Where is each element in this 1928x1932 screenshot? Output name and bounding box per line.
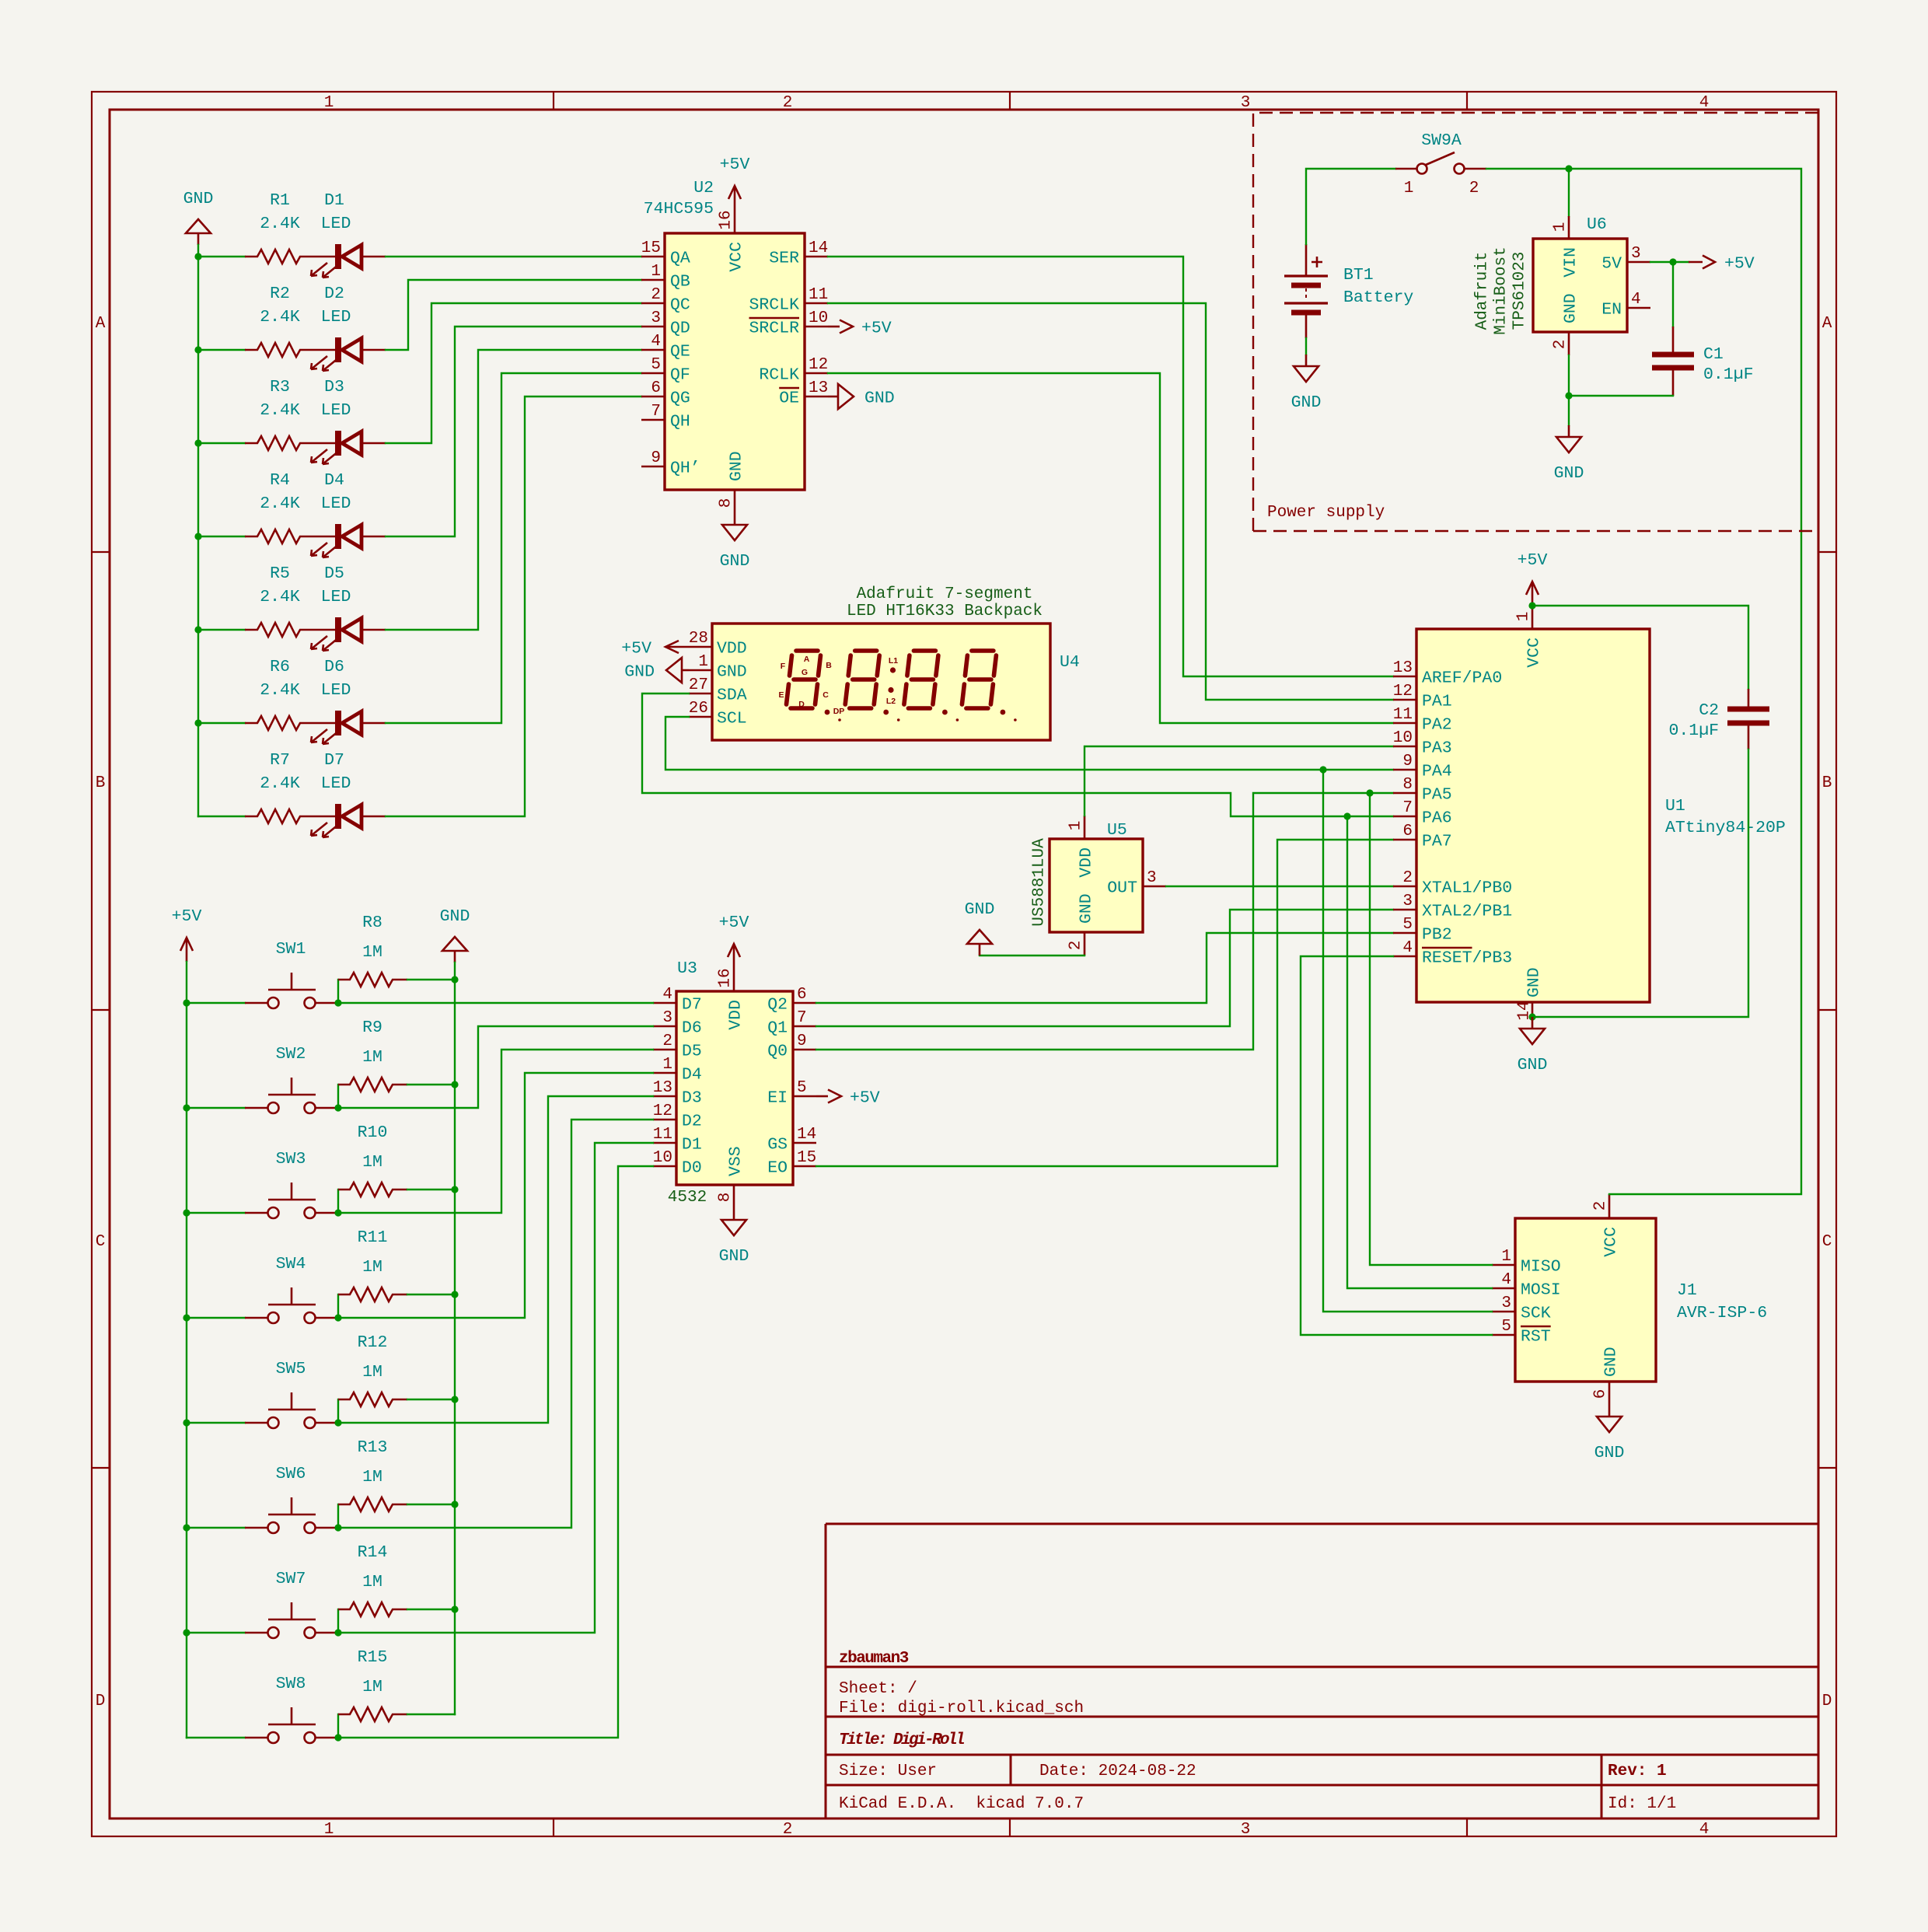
svg-text:Q1: Q1: [767, 1019, 788, 1038]
wire U5 GND to ground: [980, 955, 1084, 956]
svg-text:1: 1: [324, 1821, 334, 1839]
IC U3 4532 priority encoder: [653, 959, 816, 1208]
svg-text:Size: User: Size: User: [839, 1763, 937, 1780]
svg-text:1: 1: [1501, 1248, 1511, 1266]
svg-text:3: 3: [1501, 1294, 1511, 1312]
svg-text:+5V: +5V: [720, 155, 750, 174]
power supply dashed group box: [1253, 113, 1818, 531]
svg-text:E: E: [778, 690, 784, 700]
svg-text:PA6: PA6: [1422, 809, 1452, 828]
svg-text:2.4K: 2.4K: [260, 681, 300, 700]
junction node SW8/R15: [334, 1734, 341, 1741]
wire +5V to SW1: [187, 1002, 245, 1004]
junction node LED row 3: [194, 439, 201, 446]
pushbutton SW5: [245, 1360, 338, 1428]
svg-text:R11: R11: [358, 1228, 388, 1247]
svg-text:10: 10: [653, 1149, 672, 1167]
wire SW8 to U3 D0: [338, 1166, 653, 1738]
7-segment digit 3: [904, 651, 959, 721]
wire R14 to GND rail: [407, 1609, 455, 1610]
svg-text:74HC595: 74HC595: [644, 200, 714, 218]
resistor R13 1M: [338, 1438, 407, 1511]
wire +5V to SW5: [187, 1422, 245, 1424]
svg-text:R3: R3: [270, 378, 290, 397]
svg-text:5: 5: [1501, 1318, 1511, 1336]
wire D4 to U2: [386, 327, 641, 536]
svg-text:1M: 1M: [362, 1153, 382, 1172]
svg-text:BT1: BT1: [1343, 266, 1374, 285]
svg-text:R14: R14: [358, 1543, 388, 1562]
svg-text:4: 4: [651, 333, 661, 351]
svg-text:14: 14: [809, 239, 828, 257]
svg-text:1M: 1M: [362, 1468, 382, 1487]
svg-text:D: D: [96, 1693, 106, 1710]
svg-text:+5V: +5V: [1724, 255, 1755, 274]
svg-text:6: 6: [651, 379, 661, 397]
junction node +5V rail SW3: [183, 1209, 190, 1216]
svg-text:13: 13: [809, 379, 828, 397]
svg-text:U1: U1: [1665, 797, 1685, 816]
wire J1 MOSI to U1 PA6: [1347, 816, 1492, 1288]
svg-text:Sheet: /: Sheet: /: [839, 1680, 917, 1698]
IC U2 74HC595 shift register: [641, 179, 828, 513]
svg-text:SCL: SCL: [717, 710, 747, 728]
IC U1 ATtiny84-20P microcontroller: [1393, 606, 1786, 1021]
svg-text:VCC: VCC: [1602, 1227, 1621, 1257]
svg-text:R6: R6: [270, 658, 290, 676]
svg-text:R5: R5: [270, 564, 290, 583]
svg-text:GS: GS: [767, 1136, 788, 1155]
svg-text:11: 11: [653, 1126, 672, 1144]
resistor R3 2.4K: [245, 378, 315, 450]
svg-text:1: 1: [1067, 821, 1085, 831]
IC U4 Adafruit 7-segment LED HT16K33 Backpack: [689, 585, 1080, 740]
+5V power symbol (switch column): [172, 907, 202, 962]
resistor R8 1M: [338, 914, 407, 987]
resistor R15 1M: [338, 1648, 407, 1721]
svg-text:8: 8: [718, 498, 735, 508]
wire U3 EO to U1 PA7: [816, 840, 1393, 1166]
svg-text:11: 11: [809, 286, 828, 304]
wire U4 SCL to U1 PA4: [665, 717, 1393, 770]
svg-text:PB2: PB2: [1422, 926, 1452, 945]
junction node GND rail R12: [451, 1396, 458, 1403]
svg-text:U4: U4: [1060, 653, 1080, 672]
wire GND rail for switch resistors: [454, 963, 456, 1714]
wire GND to R7: [198, 816, 245, 817]
wire SW6 to U3 D2: [338, 1120, 653, 1528]
junction node U1 GND: [1528, 1013, 1535, 1020]
wire U6 GND to C1: [1568, 355, 1570, 396]
junction node 5V/C1: [1669, 258, 1676, 265]
svg-text:2: 2: [1469, 180, 1479, 197]
wire +5V to SW3: [187, 1212, 245, 1214]
svg-text:GND: GND: [719, 1247, 749, 1266]
junction node GND rail R11: [451, 1291, 458, 1298]
junction node GND rail R9: [451, 1081, 458, 1088]
svg-text:1: 1: [662, 1056, 672, 1074]
wire SW2 to R9: [337, 1085, 339, 1108]
svg-text:2: 2: [783, 94, 793, 112]
svg-text:+5V: +5V: [621, 640, 651, 659]
capacitor C1 0.1uF: [1652, 262, 1754, 396]
svg-text:U2: U2: [693, 179, 714, 197]
junction node LED row 1: [194, 253, 201, 260]
svg-text:Power supply: Power supply: [1267, 504, 1385, 522]
svg-text:16: 16: [717, 968, 735, 987]
switch SW9A: [1395, 131, 1486, 197]
svg-text:C: C: [1822, 1233, 1832, 1251]
svg-text:2: 2: [662, 1032, 672, 1050]
resistor R11 1M: [338, 1228, 407, 1301]
svg-text:12: 12: [1393, 683, 1413, 700]
wire +5V to SW8: [187, 1737, 245, 1738]
svg-text:LED HT16K33 Backpack: LED HT16K33 Backpack: [847, 603, 1043, 620]
pushbutton SW8: [245, 1675, 338, 1743]
wire D1 to U2 QA: [386, 256, 641, 257]
svg-text:EO: EO: [767, 1159, 788, 1178]
wire SW8 to R15: [337, 1714, 339, 1738]
wire R13 to GND rail: [407, 1504, 455, 1505]
wire J1 SCK to U1 PA4: [1323, 770, 1492, 1312]
svg-text:Adafruit 7-segment: Adafruit 7-segment: [857, 585, 1033, 603]
svg-text:XTAL1/PB0: XTAL1/PB0: [1422, 879, 1512, 898]
svg-text:U3: U3: [677, 959, 697, 978]
wire battery + to SW9A: [1306, 169, 1395, 244]
LED D4: [311, 471, 386, 557]
svg-text:8: 8: [1402, 776, 1413, 794]
svg-text:2.4K: 2.4K: [260, 494, 300, 513]
svg-text:SRCLR: SRCLR: [749, 320, 799, 338]
wire R11 to GND rail: [407, 1294, 455, 1295]
junction node SCL/SCK: [1319, 766, 1326, 773]
svg-text:J1: J1: [1677, 1281, 1697, 1300]
wire D2 to U2: [386, 280, 641, 350]
svg-text:VDD: VDD: [727, 1000, 746, 1030]
svg-text:SW4: SW4: [276, 1255, 306, 1273]
junction node Q0/MISO: [1366, 789, 1373, 796]
ground power symbol at U3 VSS: [719, 1208, 749, 1266]
svg-text:QC: QC: [670, 296, 690, 315]
resistor R12 1M: [338, 1333, 407, 1406]
junction node +5V rail SW7: [183, 1629, 190, 1636]
svg-text:4: 4: [1699, 1821, 1710, 1839]
svg-text:D4: D4: [682, 1066, 702, 1085]
svg-text:A: A: [96, 315, 106, 333]
svg-text:R2: R2: [270, 285, 290, 303]
svg-text:MiniBoost: MiniBoost: [1493, 246, 1511, 334]
svg-text:PA4: PA4: [1422, 763, 1452, 781]
resistor R4 2.4K: [245, 471, 315, 543]
svg-text:File: digi-roll.kicad_sch: File: digi-roll.kicad_sch: [839, 1700, 1084, 1717]
junction node GND rail R10: [451, 1186, 458, 1193]
svg-text:1M: 1M: [362, 1678, 382, 1696]
svg-text:9: 9: [797, 1032, 807, 1050]
svg-text:16: 16: [718, 210, 735, 229]
svg-text:PA2: PA2: [1422, 716, 1452, 735]
svg-text:B: B: [826, 661, 832, 670]
svg-text:GND: GND: [864, 390, 895, 408]
svg-text:4532: 4532: [668, 1189, 707, 1207]
+5V power symbol at U3 VDD: [719, 914, 749, 968]
svg-text:B: B: [96, 774, 106, 792]
connector J1 AVR-ISP-6: [1492, 1194, 1767, 1405]
svg-text:GND: GND: [1291, 393, 1322, 412]
svg-text:zbauman3: zbauman3: [839, 1650, 909, 1668]
svg-text:TPS61023: TPS61023: [1511, 252, 1529, 330]
wire U1 VCC to C2: [1532, 606, 1748, 689]
svg-text:R7: R7: [270, 751, 290, 770]
svg-text:10: 10: [809, 309, 828, 327]
svg-text:AVR-ISP-6: AVR-ISP-6: [1677, 1304, 1767, 1322]
svg-text:SW1: SW1: [276, 940, 306, 959]
svg-text:VDD: VDD: [717, 640, 747, 659]
wire J1 MISO to U1 PA5: [1370, 793, 1492, 1265]
ground power symbol at U5: [965, 900, 995, 956]
svg-text:GND: GND: [1594, 1444, 1625, 1462]
+5V power symbol at U2 SRCLR: [828, 320, 892, 338]
svg-text:PA5: PA5: [1422, 786, 1452, 805]
svg-text:8: 8: [717, 1193, 735, 1203]
ground power symbol (LED column): [183, 190, 214, 245]
title block: [826, 1524, 1818, 1818]
svg-text:EI: EI: [767, 1089, 788, 1108]
svg-text:LED: LED: [321, 588, 351, 606]
svg-text:SRCLK: SRCLK: [749, 296, 799, 315]
wire SW3 to R10: [337, 1190, 339, 1213]
svg-text:QH’: QH’: [670, 459, 700, 478]
svg-text:D1: D1: [324, 191, 344, 210]
svg-text:+5V: +5V: [861, 320, 892, 338]
svg-text:2: 2: [1402, 869, 1413, 887]
junction node SW7/R14: [334, 1629, 341, 1636]
svg-text:1M: 1M: [362, 1048, 382, 1067]
wire C1 bottom: [1569, 395, 1673, 397]
svg-text:2: 2: [1067, 941, 1085, 951]
resistor R10 1M: [338, 1123, 407, 1197]
wire D6 to U2: [386, 373, 641, 723]
resistor R2 2.4K: [245, 285, 315, 357]
+5V power symbol at U6 5V: [1673, 255, 1755, 274]
LED D1: [311, 191, 386, 278]
svg-text:9: 9: [1402, 753, 1413, 770]
svg-text:3: 3: [1241, 94, 1251, 112]
wire SW9A to VIN junction: [1486, 168, 1569, 169]
junction node LED row 4: [194, 533, 201, 540]
pushbutton SW2: [245, 1045, 338, 1113]
battery BT1: [1284, 244, 1413, 338]
svg-text:Date: 2024-08-22: Date: 2024-08-22: [1039, 1763, 1196, 1780]
svg-text:GND: GND: [440, 907, 470, 926]
svg-text:D3: D3: [324, 378, 344, 397]
wire R10 to GND rail: [407, 1189, 455, 1190]
svg-text:5: 5: [651, 356, 661, 374]
svg-text:4: 4: [662, 986, 672, 1004]
svg-text:5: 5: [1402, 916, 1413, 934]
svg-text:D4: D4: [324, 471, 344, 490]
svg-text:VCC: VCC: [1525, 638, 1544, 668]
svg-text:2.4K: 2.4K: [260, 308, 300, 327]
svg-text:1M: 1M: [362, 1258, 382, 1277]
svg-text:MISO: MISO: [1521, 1258, 1561, 1277]
LED D6: [311, 658, 386, 744]
wire U6 5V out: [1650, 261, 1673, 263]
wire D7 to U2: [386, 397, 641, 816]
svg-text:DP: DP: [833, 707, 845, 716]
svg-text:VDD: VDD: [1078, 847, 1096, 878]
svg-text:SW5: SW5: [276, 1360, 306, 1378]
svg-text:2.4K: 2.4K: [260, 215, 300, 233]
wire D3 to U2: [386, 303, 641, 443]
wire SW5 to R12: [337, 1399, 339, 1423]
capacitor C2 0.1uF: [1668, 689, 1769, 749]
svg-text:D: D: [1822, 1693, 1832, 1710]
svg-text:26: 26: [689, 700, 708, 718]
pushbutton SW1: [245, 940, 338, 1008]
ground power symbol at U1 GND: [1518, 1017, 1548, 1074]
wire +5V to SW6: [187, 1527, 245, 1528]
wire VIN drop: [1568, 169, 1570, 216]
wire J1 RST to U1 RESET/PB3: [1301, 956, 1492, 1335]
svg-text:2.4K: 2.4K: [260, 401, 300, 420]
svg-text:4: 4: [1501, 1271, 1511, 1289]
junction node SW6/R13: [334, 1524, 341, 1531]
svg-text:R12: R12: [358, 1333, 388, 1352]
svg-text:A: A: [804, 655, 810, 664]
svg-text:C: C: [96, 1233, 106, 1251]
svg-text:F: F: [781, 662, 786, 671]
7-segment digit 2: [845, 651, 899, 721]
svg-text:L2: L2: [886, 697, 896, 706]
pushbutton SW7: [245, 1570, 338, 1638]
svg-text:6: 6: [1592, 1389, 1610, 1399]
svg-text:D3: D3: [682, 1089, 702, 1108]
svg-text:U6: U6: [1587, 215, 1607, 234]
IC U6 Adafruit MiniBoost TPS61023: [1474, 215, 1651, 355]
svg-text:GND: GND: [183, 190, 214, 208]
svg-text:GND: GND: [1554, 464, 1584, 483]
svg-text:15: 15: [797, 1149, 816, 1167]
junction node U6 GND: [1565, 392, 1572, 399]
wire SW7 to U3 D1: [338, 1143, 653, 1633]
svg-text:QD: QD: [670, 320, 690, 338]
wire SW1 to R8: [337, 980, 339, 1003]
junction node LED row 5: [194, 626, 201, 633]
svg-text:9: 9: [651, 449, 661, 467]
svg-text:A: A: [1822, 315, 1832, 333]
svg-text:Battery: Battery: [1343, 288, 1413, 307]
svg-text:QH: QH: [670, 413, 690, 431]
wire D5 to U2: [386, 350, 641, 630]
junction node U1 VCC: [1528, 602, 1535, 609]
+5V power symbol at U2 VCC: [720, 155, 750, 210]
wire battery - to GND: [1305, 338, 1307, 355]
resistor R14 1M: [338, 1543, 407, 1616]
svg-text:2: 2: [1552, 340, 1570, 350]
svg-text:1: 1: [651, 263, 661, 281]
svg-text:GND: GND: [1602, 1347, 1621, 1377]
+5V power symbol at U1 VCC: [1518, 551, 1548, 606]
svg-text:3: 3: [1147, 869, 1157, 887]
junction node SW4/R11: [334, 1314, 341, 1321]
wire +5V to SW7: [187, 1632, 245, 1633]
svg-text:D2: D2: [682, 1113, 702, 1131]
svg-text:VSS: VSS: [727, 1146, 746, 1176]
svg-text:C2: C2: [1699, 701, 1719, 720]
junction node +5V VIN: [1565, 165, 1572, 172]
svg-text:SW8: SW8: [276, 1675, 306, 1693]
junction node +5V rail SW4: [183, 1314, 190, 1321]
LED D2: [311, 285, 386, 371]
svg-text:QF: QF: [670, 366, 690, 385]
svg-text:R10: R10: [358, 1123, 388, 1142]
svg-text:G: G: [802, 668, 808, 677]
ground power symbol at U6 GND: [1554, 425, 1584, 483]
svg-text:11: 11: [1393, 706, 1413, 724]
svg-text:1M: 1M: [362, 943, 382, 962]
svg-text:4: 4: [1699, 94, 1710, 112]
wire U5 VDD to U1 PA3: [1084, 746, 1393, 816]
svg-text:12: 12: [809, 356, 828, 374]
pushbutton SW3: [245, 1150, 338, 1218]
svg-text:LED: LED: [321, 401, 351, 420]
svg-text:+5V: +5V: [719, 914, 749, 932]
svg-text:1: 1: [1515, 612, 1533, 622]
svg-text:QA: QA: [670, 250, 690, 268]
ground power symbol (switch column): [440, 907, 470, 963]
svg-text:R9: R9: [362, 1018, 382, 1037]
wire SW2 to U3 D6: [338, 1026, 653, 1108]
svg-text:4: 4: [1402, 939, 1413, 957]
svg-text:D: D: [798, 700, 805, 709]
LED D5: [311, 564, 386, 651]
junction node SW1/R8: [334, 999, 341, 1006]
svg-text:US5881LUA: US5881LUA: [1031, 838, 1049, 927]
svg-text:SDA: SDA: [717, 687, 747, 705]
svg-text:QE: QE: [670, 343, 690, 362]
svg-text:Id: 1/1: Id: 1/1: [1608, 1795, 1676, 1813]
wire SW1 to U3 D7: [338, 1002, 653, 1004]
ground power symbol at U4 GND: [624, 658, 689, 683]
svg-text:27: 27: [689, 676, 708, 694]
wire U2 SER to U1 AREF/PA0: [828, 257, 1393, 676]
junction node +5V rail SW1: [183, 999, 190, 1006]
svg-text:ATtiny84-20P: ATtiny84-20P: [1665, 819, 1786, 837]
svg-text:LED: LED: [321, 681, 351, 700]
svg-text:Rev: 1: Rev: 1: [1608, 1763, 1667, 1780]
wire U3 Q1 to U1 XTAL2/PB1: [816, 910, 1393, 1026]
wire SW7 to R14: [337, 1609, 339, 1633]
wire GND to R5: [198, 629, 245, 631]
svg-text:1: 1: [698, 653, 708, 671]
wire SW6 to R13: [337, 1504, 339, 1528]
svg-text:10: 10: [1393, 729, 1413, 747]
svg-text:D5: D5: [682, 1043, 702, 1061]
svg-text:2: 2: [1592, 1201, 1610, 1211]
svg-text:VIN: VIN: [1562, 247, 1580, 278]
junction node +5V rail SW2: [183, 1104, 190, 1111]
ground power symbol at J1 GND: [1594, 1405, 1625, 1462]
svg-text:OE: OE: [779, 390, 799, 408]
svg-text:+5V: +5V: [850, 1089, 880, 1108]
junction node +5V rail SW6: [183, 1524, 190, 1531]
svg-text:Q2: Q2: [767, 996, 788, 1015]
svg-text:MOSI: MOSI: [1521, 1281, 1561, 1300]
wire SW3 to U3 D5: [338, 1050, 653, 1213]
svg-text:GND: GND: [1525, 967, 1544, 997]
7-segment letter labels: [778, 655, 844, 716]
pushbutton SW4: [245, 1255, 338, 1323]
